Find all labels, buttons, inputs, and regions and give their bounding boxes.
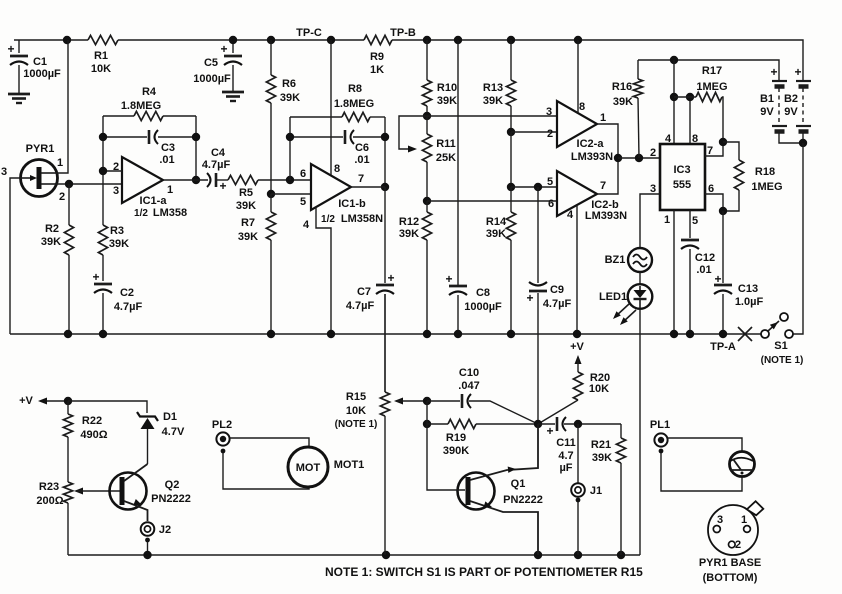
svg-text:NOTE 1: SWITCH S1 IS PART OF: NOTE 1: SWITCH S1 IS PART OF POTENTIOMET… <box>325 565 643 579</box>
svg-text:4.7µF: 4.7µF <box>114 301 143 313</box>
power flag +V (R20) <box>575 355 582 364</box>
svg-text:+: + <box>92 270 99 284</box>
battery B2 <box>796 80 811 82</box>
wire: IC3 pin4 to supply <box>673 60 675 144</box>
svg-text:9V: 9V <box>760 106 774 118</box>
wire: C4 to R5 <box>217 179 228 181</box>
capacitor C7 <box>376 284 394 287</box>
svg-text:MOT1: MOT1 <box>334 459 365 471</box>
svg-text:4.7µF: 4.7µF <box>346 300 375 312</box>
svg-text:10K: 10K <box>346 405 366 417</box>
svg-text:.047: .047 <box>458 380 479 392</box>
wire: PL1 sleeve to meter <box>661 453 742 491</box>
svg-text:2: 2 <box>547 128 553 140</box>
junction: pin6/R18/C13 <box>719 207 727 215</box>
op-amp U IC1-b <box>311 164 351 210</box>
svg-text:1/2: 1/2 <box>134 208 148 219</box>
wire: IC3 pin1 to common rail <box>673 210 675 334</box>
junction: Q1 collector node <box>534 420 542 428</box>
svg-text:7: 7 <box>600 180 606 192</box>
svg-text:4.7V: 4.7V <box>162 426 185 438</box>
resistor R10 <box>426 40 428 80</box>
svg-text:+: + <box>714 272 721 286</box>
svg-text:1: 1 <box>57 157 63 169</box>
svg-text:LM393N: LM393N <box>585 210 627 222</box>
potentiometer R11 <box>426 116 428 134</box>
wire: LED1 cathode down to bottom rail <box>639 309 641 555</box>
resistor R13 <box>510 40 512 80</box>
wire: +V to zener D1 <box>68 401 147 413</box>
svg-text:39K: 39K <box>486 228 506 240</box>
pin hole 1 <box>744 526 751 533</box>
svg-text:C4: C4 <box>211 147 226 159</box>
resistor R6 <box>270 40 272 75</box>
svg-text:LM358: LM358 <box>153 207 187 219</box>
wire: IC3 pin7 to R17/R18 node <box>705 142 723 156</box>
comparator U IC2-a <box>557 101 597 147</box>
wire: IC1-b pin4 to common rail <box>316 207 331 334</box>
test point TP-A <box>738 327 752 341</box>
svg-text:R12: R12 <box>399 216 419 228</box>
capacitor C9 <box>537 187 539 283</box>
transistor Q1 <box>458 473 495 510</box>
capacitor C2 <box>94 283 112 286</box>
svg-text:1K: 1K <box>370 64 384 76</box>
plug PL2 <box>216 432 229 445</box>
svg-text:25K: 25K <box>436 152 456 164</box>
buzzer BZ1 <box>628 248 652 272</box>
svg-text:2: 2 <box>650 147 656 159</box>
svg-text:1: 1 <box>741 514 747 526</box>
svg-text:4.7µF: 4.7µF <box>543 298 572 310</box>
svg-text:Q2: Q2 <box>165 479 180 491</box>
resistor R18 <box>723 142 739 160</box>
junction: rail/C5 <box>229 36 237 44</box>
svg-text:39K: 39K <box>109 238 129 250</box>
junction: rail/C12 <box>686 330 694 338</box>
junction: C11/J1/R21 <box>574 420 582 428</box>
junction: C10 leg/R19 <box>423 420 431 428</box>
svg-text:3: 3 <box>113 185 119 197</box>
junction: R11/R12 to pin6 <box>423 197 431 205</box>
svg-text:S1: S1 <box>774 340 787 352</box>
power flag +V (lower left) <box>44 400 68 402</box>
svg-text:TP-A: TP-A <box>710 341 736 353</box>
wire: IC2-a output <box>597 124 618 158</box>
wire: divider to IC1-b pin5 <box>271 193 311 195</box>
svg-text:PYR1: PYR1 <box>26 143 55 155</box>
svg-text:5: 5 <box>300 196 306 208</box>
wire: B1 supply rail <box>638 60 779 81</box>
svg-text:R3: R3 <box>110 225 124 237</box>
junction: rail/R10 (TP-B) <box>423 36 431 44</box>
svg-text:2: 2 <box>59 191 65 203</box>
svg-text:+: + <box>7 42 14 56</box>
svg-text:R1: R1 <box>94 50 108 62</box>
svg-text:C2: C2 <box>120 287 134 299</box>
wire: PYR1 pin2 to IC1-a pin3 <box>56 183 122 185</box>
svg-text:1.8MEG: 1.8MEG <box>121 100 161 112</box>
svg-text:R9: R9 <box>370 51 384 63</box>
svg-text:µF: µF <box>559 462 572 474</box>
svg-text:B2: B2 <box>784 93 798 105</box>
svg-text:C3: C3 <box>161 142 175 154</box>
ground for C1 <box>8 93 30 96</box>
svg-text:+: + <box>526 291 533 305</box>
svg-text:+V: +V <box>570 341 584 353</box>
junction: R16 pull-up <box>635 154 643 162</box>
svg-text:.01: .01 <box>159 154 174 166</box>
wire: output column down to C7/R15 <box>384 187 386 283</box>
wire: top +V supply rail <box>14 39 88 41</box>
resistor R21 <box>620 424 622 438</box>
svg-text:1000µF: 1000µF <box>23 68 61 80</box>
svg-text:B1: B1 <box>760 93 774 105</box>
wire: IC3 pin8 to supply <box>689 97 691 144</box>
junction: comparator outputs tied <box>614 154 622 162</box>
svg-text:C5: C5 <box>204 57 218 69</box>
potentiometer R15 <box>384 294 386 392</box>
connector PYR1 base diagram <box>708 505 758 555</box>
wire: R5 to IC1-b pin6 <box>258 179 311 181</box>
svg-text:PN2222: PN2222 <box>503 494 543 506</box>
svg-text:+: + <box>387 271 394 285</box>
junction: IC1-a output <box>192 176 200 184</box>
wire: R10 node to IC2-a pin3 <box>427 115 557 117</box>
svg-text:PL1: PL1 <box>650 419 670 431</box>
svg-text:1: 1 <box>167 184 173 196</box>
svg-text:1/2: 1/2 <box>321 214 335 225</box>
svg-text:R11: R11 <box>436 138 456 150</box>
svg-text:Q1: Q1 <box>511 478 526 490</box>
junction: bottom/J2 <box>143 551 151 559</box>
svg-text:8: 8 <box>579 101 585 113</box>
svg-text:R2: R2 <box>45 223 59 235</box>
svg-text:1: 1 <box>664 214 670 226</box>
resistor R1 <box>88 35 118 44</box>
svg-text:39K: 39K <box>236 200 256 212</box>
wire: divider to IC2-b pin5 <box>511 186 557 188</box>
zener diode D1 <box>137 412 158 421</box>
svg-text:39K: 39K <box>399 228 419 240</box>
wire: battery negative to switch S1 <box>793 143 803 334</box>
svg-text:39K: 39K <box>41 236 61 248</box>
svg-text:C9: C9 <box>550 284 564 296</box>
svg-text:J2: J2 <box>159 524 171 536</box>
junction: rail/IC1-b pin4 <box>327 330 335 338</box>
svg-text:+: + <box>770 65 777 79</box>
junction: rail/C13 <box>719 330 727 338</box>
svg-text:R6: R6 <box>282 78 296 90</box>
svg-text:200Ω: 200Ω <box>36 495 63 507</box>
pin hole 3 <box>713 526 720 533</box>
svg-text:LED1: LED1 <box>599 291 627 303</box>
junction: rail/R2 <box>64 330 72 338</box>
resistor R20 <box>573 372 582 400</box>
svg-text:7: 7 <box>707 145 713 157</box>
svg-text:LM358N: LM358N <box>341 213 383 225</box>
junction: wiper/C10 <box>423 397 431 405</box>
junction: pin7/R17/R18 <box>719 138 727 146</box>
junction: PYR1 pin2/R2 <box>65 180 73 188</box>
svg-text:+: + <box>445 272 452 286</box>
svg-text:3: 3 <box>650 183 656 195</box>
svg-text:TP-C: TP-C <box>296 27 322 39</box>
svg-text:+V: +V <box>19 395 33 407</box>
resistor R22 <box>67 401 69 414</box>
resistor R14 <box>510 187 512 212</box>
svg-text:C6: C6 <box>355 142 369 154</box>
svg-text:5: 5 <box>547 176 553 188</box>
svg-text:R7: R7 <box>241 217 255 229</box>
svg-text:7: 7 <box>358 173 364 185</box>
svg-text:3: 3 <box>1 166 7 178</box>
svg-text:39K: 39K <box>280 92 300 104</box>
junction: C3 left <box>99 133 107 141</box>
junction: R13 to IC2-a pin2 <box>507 128 515 136</box>
svg-text:39K: 39K <box>483 95 503 107</box>
wire: IC3 pin6 to R18 bottom <box>705 194 723 211</box>
svg-text:IC2-a: IC2-a <box>577 138 605 150</box>
wire: R8/C6 left leg <box>289 117 291 180</box>
svg-text:.01: .01 <box>354 154 369 166</box>
junction: battery negatives <box>799 139 807 147</box>
junction: IC1-b output <box>381 183 389 191</box>
svg-text:3: 3 <box>717 514 723 526</box>
junction: bottom/R21 <box>617 551 625 559</box>
svg-text:10K: 10K <box>589 383 609 395</box>
wire: PYR1 pin3 to common rail <box>10 178 21 334</box>
svg-text:C7: C7 <box>357 286 371 298</box>
svg-text:R21: R21 <box>591 439 611 451</box>
junction: rail/R12 <box>423 330 431 338</box>
svg-text:1000µF: 1000µF <box>193 73 231 85</box>
battery B1 <box>772 80 787 82</box>
wire: IC2-a pin8 to rail <box>577 40 579 113</box>
junction: rail/R6 <box>267 36 275 44</box>
transistor Q2 <box>110 473 147 510</box>
svg-text:4: 4 <box>303 219 310 231</box>
svg-text:2: 2 <box>735 539 741 551</box>
jack J2 <box>141 522 155 536</box>
jack J1 <box>577 424 579 483</box>
wire: PL2 sleeve to motor <box>223 453 309 489</box>
svg-text:+: + <box>794 65 801 79</box>
ground for C5 <box>222 91 244 94</box>
svg-text:R5: R5 <box>239 187 253 199</box>
svg-text:R19: R19 <box>446 432 466 444</box>
svg-text:39K: 39K <box>437 95 457 107</box>
wire: bottom rail <box>68 554 640 556</box>
junction: rail/R7 <box>267 330 275 338</box>
resistor R17 <box>674 96 696 98</box>
capacitor C1 <box>18 40 20 53</box>
svg-text:C12: C12 <box>695 252 715 264</box>
junction: rail/C8 <box>454 36 462 44</box>
resistor R12 <box>426 201 428 212</box>
wire: IC1-a pin2 input <box>103 170 122 172</box>
wire: Q1 emitter to bottom rail <box>470 501 538 555</box>
wire: IC1-b pin8 to rail <box>330 40 332 175</box>
capacitor C10 <box>427 400 460 402</box>
svg-text:R10: R10 <box>437 82 457 94</box>
junction: rail/IC2 pin8 <box>574 36 582 44</box>
svg-text:(NOTE 1): (NOTE 1) <box>335 419 378 430</box>
junction: pin2 node <box>99 167 107 175</box>
plug PL1 <box>654 433 667 446</box>
svg-text:PYR1 BASE: PYR1 BASE <box>699 557 761 569</box>
junction: rail/IC1-b pin8 (TP-C) <box>327 36 335 44</box>
wire: feedback right leg R4/C3 to output <box>195 116 197 180</box>
wire: Q1 base from R15/C10 node <box>427 424 465 490</box>
svg-text:C8: C8 <box>476 287 490 299</box>
wire: comparator outputs to IC3 pin2 <box>618 157 660 159</box>
wire: R11 wiper loop <box>399 116 427 149</box>
svg-text:1: 1 <box>600 112 606 124</box>
wire: R13/R14 divider leg <box>510 132 512 187</box>
junction: +V node <box>64 397 72 405</box>
wire: IC2-b output <box>597 158 618 194</box>
svg-text:8: 8 <box>692 133 698 145</box>
junction: C6 left <box>286 133 294 141</box>
wire: PL2 tip to motor <box>230 438 309 447</box>
timer U IC3 555 <box>660 144 705 210</box>
svg-text:BZ1: BZ1 <box>605 254 626 266</box>
resistor R3 <box>102 171 104 225</box>
svg-text:4: 4 <box>665 133 672 145</box>
svg-text:8: 8 <box>334 163 340 175</box>
svg-text:1000µF: 1000µF <box>464 301 502 313</box>
svg-text:4.7: 4.7 <box>558 450 573 462</box>
comparator U IC2-b <box>557 171 597 216</box>
svg-text:4: 4 <box>567 209 574 221</box>
svg-text:+: + <box>546 424 553 438</box>
capacitor C4 <box>207 173 211 187</box>
junction: pin6 feedback node <box>286 176 294 184</box>
svg-text:PN2222: PN2222 <box>151 493 191 505</box>
svg-text:C13: C13 <box>738 283 758 295</box>
svg-text:R8: R8 <box>348 83 362 95</box>
svg-text:LM393N: LM393N <box>571 151 613 163</box>
resistor R5 <box>228 175 258 184</box>
pin hole 2 <box>729 541 736 548</box>
capacitor C5 <box>232 40 234 53</box>
meter M1 <box>730 452 755 477</box>
svg-text:9V: 9V <box>784 106 798 118</box>
potentiometer R23 <box>63 482 72 503</box>
LED1 emission arrows <box>616 304 629 316</box>
svg-text:490Ω: 490Ω <box>80 429 107 441</box>
wire: PYR1 pin1 to +V rail <box>57 40 68 173</box>
svg-text:R15: R15 <box>346 391 366 403</box>
svg-text:D1: D1 <box>163 411 177 423</box>
svg-text:J1: J1 <box>590 485 602 497</box>
svg-text:C11: C11 <box>556 437 576 449</box>
junction: supply/IC3 pin4 <box>670 56 678 64</box>
wire: IC1-b output <box>351 186 385 188</box>
svg-text:.01: .01 <box>696 264 711 276</box>
svg-text:+: + <box>219 179 226 193</box>
junction: rail/C2 <box>99 330 107 338</box>
junction: R6/R7 divider to pin5 <box>267 190 275 198</box>
capacitor C3 <box>103 136 147 138</box>
svg-text:IC1-a: IC1-a <box>140 195 168 207</box>
svg-text:39K: 39K <box>613 96 633 108</box>
svg-text:1MEG: 1MEG <box>696 81 727 93</box>
svg-text:MOT: MOT <box>296 462 321 474</box>
capacitor C6 <box>290 136 343 138</box>
svg-text:+: + <box>220 42 227 56</box>
svg-text:(BOTTOM): (BOTTOM) <box>703 572 758 584</box>
svg-text:R22: R22 <box>82 415 102 427</box>
resistor R8 feedback <box>290 116 342 118</box>
wire: BZ1 to LED1 <box>639 272 641 284</box>
svg-text:4.7µF: 4.7µF <box>202 159 231 171</box>
wire: PL1 tip to meter <box>668 438 742 452</box>
junction: R17/pin8 <box>686 93 694 101</box>
svg-text:1MEG: 1MEG <box>751 181 782 193</box>
svg-text:PL2: PL2 <box>212 419 232 431</box>
junction: divider to IC2-b pin5 <box>507 183 515 191</box>
capacitor C8 supply filter <box>457 40 459 285</box>
svg-text:R13: R13 <box>483 82 503 94</box>
wire: Q1 collector to node <box>470 424 538 480</box>
svg-text:(NOTE 1): (NOTE 1) <box>761 355 804 366</box>
junction: C9 top <box>534 183 542 191</box>
wire: common rail (mid) <box>10 333 761 335</box>
wire: R8/C6 right leg <box>384 117 386 187</box>
switch S1 <box>761 330 769 338</box>
svg-text:R16: R16 <box>612 81 632 93</box>
wire: IC3 pin5 to C12 <box>689 210 691 238</box>
wire: IC1-a output to C4 <box>163 179 208 181</box>
svg-text:39K: 39K <box>238 231 258 243</box>
junction: rail/IC2 pin4 <box>573 330 581 338</box>
svg-text:555: 555 <box>673 179 691 191</box>
svg-text:R14: R14 <box>486 216 507 228</box>
svg-text:IC3: IC3 <box>673 164 690 176</box>
svg-text:IC1-b: IC1-b <box>338 198 366 210</box>
svg-text:1.8MEG: 1.8MEG <box>334 98 374 110</box>
junction: R10/R11 <box>423 112 431 120</box>
svg-text:3: 3 <box>546 106 552 118</box>
svg-text:390K: 390K <box>443 445 469 457</box>
junction: rail/C8- <box>454 330 462 338</box>
svg-text:TP-B: TP-B <box>390 27 416 39</box>
junction: rail/R14 <box>507 330 515 338</box>
motor MOT1 <box>288 447 328 487</box>
junction: C3 right <box>192 133 200 141</box>
svg-text:6: 6 <box>548 198 554 210</box>
svg-text:6: 6 <box>708 183 714 195</box>
svg-text:C10: C10 <box>459 367 479 379</box>
resistor R9 <box>364 35 392 44</box>
svg-text:5: 5 <box>692 215 698 227</box>
svg-text:R23: R23 <box>39 481 59 493</box>
wire: IC3 pin3 to buzzer <box>640 194 660 248</box>
svg-text:R17: R17 <box>702 65 722 77</box>
svg-text:C1: C1 <box>33 56 47 68</box>
junction: rail/R13 <box>507 36 515 44</box>
junction: bottom/R15 <box>382 551 390 559</box>
capacitor C12 <box>681 239 699 242</box>
svg-text:10K: 10K <box>91 63 111 75</box>
svg-text:R18: R18 <box>755 166 775 178</box>
svg-text:39K: 39K <box>592 452 612 464</box>
resistor R4 feedback <box>103 115 134 117</box>
junction: rail/C1 branch <box>63 36 71 44</box>
svg-text:6: 6 <box>300 168 306 180</box>
